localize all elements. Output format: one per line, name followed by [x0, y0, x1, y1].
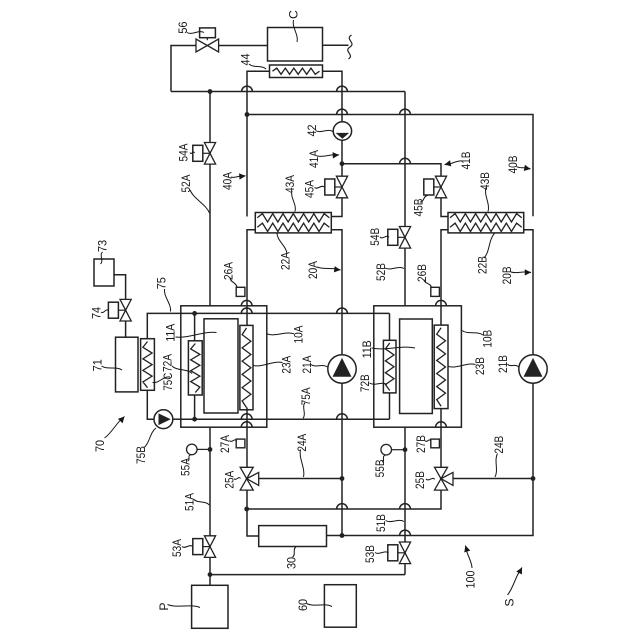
svg-text:30: 30 [285, 557, 299, 569]
wire: valve 56 outlet to condenser C [218, 45, 267, 47]
junction dot 52A branch [208, 89, 213, 94]
wire: bottom return header y=574.6 [210, 574, 405, 576]
wire: internal top header y=313.4 [181, 312, 267, 314]
svg-text:27B: 27B [414, 435, 428, 453]
valve 53A (motor valve) [204, 536, 215, 547]
hop domes on upper buses [242, 86, 253, 91]
wire: pump 42 to valve 45A [341, 140, 343, 176]
svg-text:70: 70 [93, 440, 107, 452]
wire: 41B branch to valve 45B [342, 164, 441, 177]
valve 45B (motor valve) [435, 176, 446, 187]
valve 45A (motor valve) [336, 176, 347, 187]
svg-text:55A: 55A [179, 457, 193, 476]
three-way valve 25B [435, 467, 448, 478]
svg-text:74: 74 [90, 307, 104, 319]
sensor 55B [381, 444, 392, 455]
svg-text:44: 44 [239, 53, 253, 65]
wire: 22A below unit through valve 25A into tank 30 [246, 408, 248, 467]
boiler box 71 [116, 337, 139, 392]
svg-text:51A: 51A [182, 492, 196, 511]
wire: 25A side port to 20A line (24A) [259, 478, 342, 480]
valve 53B (motor valve) [399, 542, 410, 553]
svg-text:54A: 54A [177, 143, 191, 162]
wire: 44 left stub to 40A riser [247, 71, 270, 216]
svg-text:40B: 40B [506, 156, 520, 174]
svg-text:71: 71 [91, 359, 105, 371]
inner tank 11B [400, 319, 433, 414]
wire: bus y=114.5 from 40A to 40B corner [247, 115, 533, 217]
svg-text:75: 75 [155, 277, 169, 289]
sensor 55A [187, 444, 198, 455]
svg-text:11A: 11A [164, 323, 178, 342]
junction dot 40A/bus [245, 112, 250, 117]
svg-text:11B: 11B [360, 340, 374, 358]
svg-text:43B: 43B [478, 172, 492, 190]
wire: 43A bottom-left stub down 22A line to unit 10A [247, 230, 255, 325]
svg-text:54B: 54B [368, 228, 382, 246]
wire: 20B pump 21B outlet down and across to tank 30 [327, 383, 534, 535]
wire: 43B bottom-left stub down 22B line to unit 10B [441, 230, 448, 325]
svg-text:10B: 10B [481, 330, 495, 348]
svg-text:41A: 41A [307, 149, 321, 168]
wire: 20A pump 21A outlet down to junctions [341, 383, 343, 535]
box 60 (controller) [324, 585, 356, 628]
svg-text:23B: 23B [473, 357, 487, 375]
svg-text:20A: 20A [306, 260, 320, 279]
wire: 72B U-riser corners [389, 313, 391, 340]
wire: 43A bottom-right stub down 20A line [331, 230, 342, 354]
sensor square 26B [431, 287, 440, 296]
wire: 72A riser [194, 313, 196, 340]
pump 21B [519, 355, 547, 383]
domes on unit 10B casing crossings [436, 300, 447, 305]
heat exchanger 75C [141, 339, 155, 391]
svg-text:20B: 20B [500, 266, 514, 284]
wire: heat medium pipes from 10A to 10B [267, 312, 390, 314]
sensor square 26A [236, 287, 245, 296]
wire: 45A to 43A top-right stub [331, 198, 342, 217]
wire: pump 75B outlet into unit 10A [173, 418, 181, 420]
wire: 51A from unit 10A bottom through valve 53A to pump P [209, 427, 211, 536]
wire: 43B bottom-right stub to 20B top [524, 230, 533, 354]
wire: 45B to 43B top-left stub [441, 198, 448, 217]
wire: 25B bottom port across to 25A drop (return header) [247, 490, 441, 509]
pump 75B [154, 410, 173, 429]
wire: 52B drop from bus through valve 54B to unit 10B casing [404, 92, 406, 227]
svg-text:27A: 27A [218, 434, 232, 453]
svg-text:52B: 52B [374, 263, 388, 281]
coil 72A [188, 341, 202, 395]
svg-text:40A: 40A [221, 171, 235, 190]
svg-text:53B: 53B [363, 545, 377, 563]
wire: 52A drop from bus through valve 54A to unit 10A casing [209, 92, 211, 143]
svg-text:51B: 51B [374, 514, 388, 532]
three-way valve 25A [240, 467, 253, 478]
storage tank 30 [259, 526, 327, 547]
svg-text:56: 56 [176, 21, 190, 33]
svg-text:53A: 53A [170, 538, 184, 557]
pump 21A [328, 355, 356, 383]
svg-text:24B: 24B [492, 436, 506, 454]
heat exchanger 43B [448, 213, 524, 233]
heat exchanger 44 [270, 65, 323, 78]
svg-text:73: 73 [96, 240, 110, 252]
svg-text:100: 100 [464, 570, 478, 588]
junction dots bottom headers [340, 476, 345, 481]
sensor square 27A [236, 439, 245, 448]
junction dots on 72A riser [192, 311, 197, 316]
svg-text:42: 42 [305, 124, 319, 136]
svg-text:75B: 75B [134, 446, 148, 464]
svg-text:75C: 75C [161, 373, 175, 391]
box C (condenser/load) [268, 28, 323, 62]
svg-text:52A: 52A [179, 174, 193, 193]
wire: C outlet to line break [323, 44, 349, 46]
svg-text:75A: 75A [299, 387, 313, 406]
wire: 44 right stub down to pump 42 [323, 71, 343, 122]
svg-text:24A: 24A [295, 433, 309, 452]
coil 72B [383, 340, 396, 393]
wire: internal bottom header y=419.2 inside 10A [181, 418, 267, 420]
svg-text:55B: 55B [373, 459, 387, 477]
inner tank 11A [204, 319, 238, 413]
valve 54A (motor valve) [204, 143, 215, 154]
wire: line from valve 56 to left riser and down to upper bus [171, 46, 197, 92]
coil 23A [240, 325, 253, 409]
svg-text:C: C [287, 10, 301, 19]
svg-text:43A: 43A [283, 174, 297, 193]
svg-text:22B: 22B [476, 256, 490, 274]
svg-text:25B: 25B [413, 471, 427, 489]
unit box 10B [374, 306, 462, 427]
pump unit box P [192, 585, 228, 628]
wire: 73 to valve 74 to 71 [114, 275, 126, 300]
line-break squiggle [348, 35, 352, 59]
wire: 51B from unit 10B bottom through valve 53B [404, 427, 406, 542]
svg-text:21A: 21A [300, 355, 314, 374]
svg-text:26B: 26B [415, 264, 429, 282]
svg-text:22A: 22A [279, 251, 293, 270]
svg-text:60: 60 [296, 599, 310, 611]
valve 56 (two-way motor valve, horizontal) [196, 39, 207, 52]
junction dot 41A/41B split [340, 161, 345, 166]
svg-text:72A: 72A [161, 353, 175, 372]
heat exchanger 43A [255, 213, 331, 233]
svg-text:45A: 45A [303, 179, 317, 198]
domes where pipes hop inside/on unit 10A [241, 300, 252, 305]
svg-text:45B: 45B [412, 199, 426, 217]
wire: 25B side port to 20B line (24B) [453, 478, 533, 480]
wire: upper horizontal bus y=91.5 from riser to 52B corner [171, 91, 405, 93]
valve 54B (motor valve) [399, 227, 410, 238]
sensor square 27B [431, 439, 440, 448]
svg-text:23A: 23A [280, 355, 294, 374]
svg-text:S: S [503, 598, 517, 606]
valve 74 (motor valve) [120, 299, 131, 310]
coil 23B [434, 325, 448, 409]
box 73 (fuel tank) [94, 259, 114, 286]
svg-text:26A: 26A [222, 261, 236, 280]
pump 42 [333, 122, 351, 140]
unit box 10A [181, 306, 267, 427]
left loop riser with heat exchanger 75C [147, 313, 181, 338]
wire: 22B below unit through valve 25B [440, 409, 442, 467]
svg-text:P: P [157, 602, 171, 610]
